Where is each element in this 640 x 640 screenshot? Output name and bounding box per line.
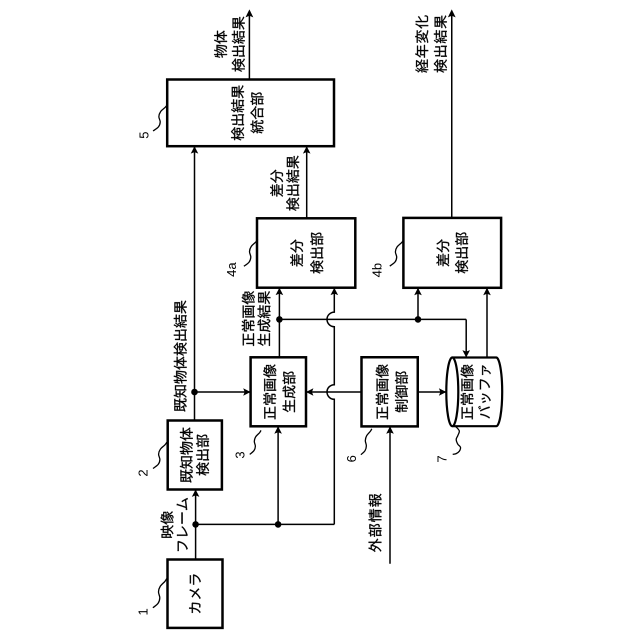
svg-text:4a: 4a xyxy=(224,262,239,277)
svg-text:5: 5 xyxy=(136,131,151,138)
svg-text:3: 3 xyxy=(233,451,248,458)
svg-text:6: 6 xyxy=(344,455,359,462)
svg-text:2: 2 xyxy=(136,469,151,476)
svg-text:4b: 4b xyxy=(369,263,384,277)
svg-text:1: 1 xyxy=(136,608,151,615)
svg-text:7: 7 xyxy=(434,455,449,462)
